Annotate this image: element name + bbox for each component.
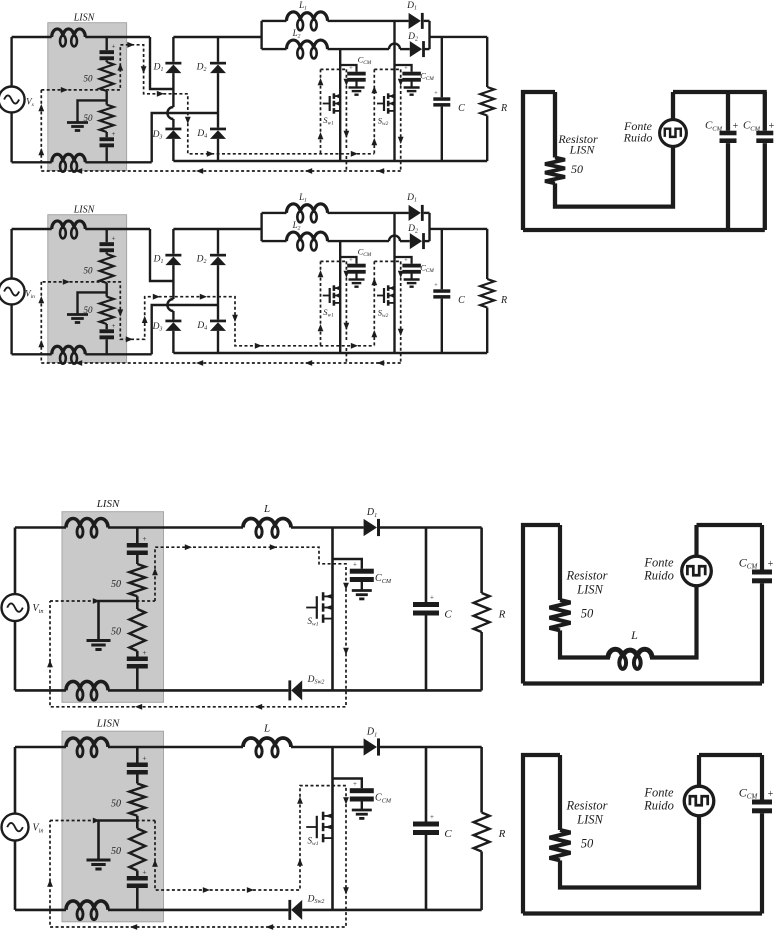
resistor LISN 50 lower: [129, 609, 145, 651]
svg-text:LISN: LISN: [73, 205, 96, 216]
inductor LISN top: [66, 519, 108, 528]
wire load branch lower: [486, 116, 488, 162]
ground CCM2: [404, 86, 420, 88]
svg-text:D2: D2: [196, 63, 207, 74]
svg-text:Vin: Vin: [25, 289, 35, 301]
dashed loop Sw1 top: [321, 260, 347, 262]
dashed arrow: [203, 887, 210, 893]
wire bottom line right: [302, 909, 481, 912]
svg-text:+: +: [430, 813, 434, 821]
wire ground tap: [99, 601, 138, 641]
wire riser to bridge node B: [152, 305, 218, 354]
wire switch branch: [331, 528, 334, 691]
capacitor C output: [433, 289, 450, 293]
wire load branch upper: [480, 747, 483, 813]
dashed arrow: [153, 294, 160, 300]
svg-text:Sw2: Sw2: [378, 308, 389, 320]
svg-text:CCM: CCM: [739, 556, 759, 571]
wire LISN ground tap: [78, 100, 107, 122]
dashed arrow: [63, 279, 70, 285]
wire bottom line to LISN: [12, 161, 52, 163]
svg-text:+: +: [434, 90, 438, 97]
dashed arrow: [398, 271, 404, 278]
svg-text:+: +: [142, 754, 146, 763]
ac source Vin: [0, 87, 25, 113]
wire noise source to top rail: [671, 92, 675, 120]
wire switch Sw2 branch: [393, 21, 395, 161]
capacitor CCM equivalent wire: [760, 755, 764, 800]
dashed arrow: [93, 598, 100, 604]
svg-text:Resistor: Resistor: [566, 799, 608, 813]
dashed arrow: [152, 860, 158, 867]
dashed arrow: [157, 91, 164, 97]
wire load branch upper: [486, 229, 488, 279]
dashed arrow: [47, 880, 53, 887]
wire L to D1: [291, 526, 364, 529]
dashed loop Sw1 right side: [345, 69, 347, 149]
resistor LISN 50 upper: [100, 62, 114, 91]
wire ac source left vertical: [10, 229, 12, 279]
svg-text:50: 50: [111, 579, 121, 590]
wire CCM2 to ground: [411, 81, 413, 87]
capacitor CCM equivalent 1: [720, 131, 737, 136]
wire resistor bottom horizontal: [560, 816, 699, 888]
wire L1 to D1h: [328, 20, 409, 22]
wire output cap branch lower: [441, 299, 443, 353]
wire top line: [108, 746, 243, 749]
ground CCM1: [349, 86, 365, 88]
wire CCM1 tap: [340, 65, 356, 72]
dashed arrow: [344, 271, 350, 278]
equivalent circuit outer left wire: [523, 755, 560, 914]
svg-text:D1: D1: [366, 507, 377, 519]
dashed arrow: [200, 294, 207, 300]
wire LISN mid: [136, 816, 139, 829]
resistor LISN 50 lower: [100, 297, 114, 324]
wire LISN branch top: [105, 229, 107, 242]
wire source vertical: [14, 747, 17, 814]
dashed loop Sw2 top: [374, 68, 400, 70]
wire output top: [430, 228, 488, 230]
svg-text:+: +: [142, 648, 146, 657]
svg-text:L: L: [263, 503, 270, 515]
svg-text:D2: D2: [196, 255, 207, 266]
wire output top: [430, 36, 488, 38]
wire to lower cap: [136, 651, 139, 657]
ground CCM: [352, 589, 372, 592]
ac source Vin: [2, 814, 29, 841]
ground CCM1: [349, 278, 365, 280]
dashed arrow: [196, 360, 203, 366]
svg-text:L1: L1: [298, 192, 307, 204]
capacitor CCM equivalent 1 wire: [726, 92, 730, 131]
wire switch Sw2 branch: [393, 213, 395, 353]
wire bridge right leg bottom: [217, 331, 219, 353]
capacitor CCM: [350, 569, 374, 574]
svg-text:C: C: [458, 295, 465, 306]
dashed arrow: [343, 648, 349, 655]
wire bridge right leg upper: [217, 229, 219, 254]
dashed arrow: [398, 329, 404, 336]
svg-text:C: C: [444, 828, 452, 840]
resistor LISN 50 equivalent: [545, 158, 565, 184]
wire bottom line to LISN: [15, 909, 66, 912]
dashed bottom return: [41, 362, 400, 364]
wire crossover hop on left leg: [167, 107, 173, 119]
wire between cap and resistor: [105, 252, 107, 254]
svg-text:+: +: [769, 121, 774, 132]
wire bottom line right: [302, 689, 481, 692]
ground LISN: [67, 121, 88, 124]
svg-text:D2: D2: [407, 224, 418, 235]
dashed arrow: [93, 818, 100, 824]
svg-text:Ruido: Ruido: [643, 569, 674, 583]
dashed arrow: [207, 151, 214, 157]
wire jog down to bridge node A: [150, 229, 173, 281]
diode D4: [210, 320, 226, 323]
dashed arrow: [126, 336, 133, 342]
wire switch Sw1 branch: [339, 49, 341, 161]
capacitor CCM1: [347, 264, 366, 268]
capacitor LISN upper: [100, 242, 115, 246]
wire diode join vertical: [428, 21, 430, 49]
capacitor CCM equivalent: [752, 570, 772, 575]
dashed arrow: [142, 316, 148, 323]
wire bridge right leg middle: [217, 265, 219, 320]
wire CCM2 tap: [395, 65, 412, 72]
svg-text:LISN: LISN: [73, 13, 96, 24]
dashed arrow: [371, 278, 377, 285]
dashed arrow: [247, 887, 254, 893]
svg-text:Sw2: Sw2: [378, 116, 389, 128]
inductor L1: [287, 12, 328, 21]
dashed arrow: [318, 324, 324, 331]
wire D1 to output: [380, 746, 482, 749]
wire CCM equivalent lower: [760, 813, 764, 913]
dashed arrow: [377, 168, 384, 174]
dashed arrow: [297, 797, 303, 804]
svg-text:Vs: Vs: [26, 97, 34, 109]
capacitor CCM equivalent 2 wire: [763, 92, 767, 131]
resistor LISN 50 upper: [129, 784, 145, 816]
dashed loop Sw2 right side: [400, 261, 402, 363]
diode D2: [210, 254, 226, 257]
capacitor LISN upper: [127, 763, 148, 768]
svg-text:Vin: Vin: [33, 823, 44, 835]
svg-text:+: +: [353, 780, 357, 788]
svg-text:Sw1: Sw1: [323, 115, 334, 127]
wire ac source left vertical: [10, 37, 12, 87]
wire bottom rail: [173, 160, 487, 162]
wire LISN branch top: [105, 37, 107, 50]
wire riser to bridge node B: [152, 113, 218, 162]
wire diode join vertical: [428, 213, 430, 241]
wire D1h to join: [424, 20, 430, 22]
svg-text:50: 50: [111, 627, 121, 638]
wire D1 to output: [380, 526, 482, 529]
dashed arrow: [75, 360, 82, 366]
transistor Sw1: [323, 295, 330, 297]
dashed arrow: [38, 148, 44, 155]
svg-text:R: R: [500, 295, 507, 306]
wire bridge right leg middle: [217, 73, 219, 128]
wire inductor junction vertical: [260, 21, 262, 49]
dashed arrow: [75, 168, 82, 174]
wire LISN ground tap: [78, 292, 107, 314]
dashed arrow: [371, 138, 377, 145]
svg-text:+: +: [349, 65, 353, 72]
inductor L2: [287, 40, 328, 49]
wire jog down to bridge node A: [150, 37, 173, 89]
wire bottom line: [108, 909, 288, 912]
wire CCM2 to ground: [411, 273, 413, 279]
wire cap to resistor: [136, 775, 139, 784]
capacitor LISN upper: [100, 50, 115, 54]
ground CCM2: [404, 278, 420, 280]
wire ground tap: [99, 821, 138, 861]
resistor LISN 50 upper: [129, 564, 145, 596]
dashed arrow: [351, 343, 358, 349]
svg-text:D2: D2: [407, 32, 418, 43]
wire to lower cap: [105, 324, 107, 329]
dashed arrow: [196, 168, 203, 174]
inductor L equivalent: [608, 649, 652, 658]
wire LISN branch top: [136, 747, 139, 763]
wire switch Sw1 branch: [339, 241, 341, 353]
svg-text:R: R: [498, 609, 506, 621]
wire to lower cap: [105, 132, 107, 137]
svg-text:50: 50: [111, 799, 121, 810]
wire load branch lower: [486, 308, 488, 354]
svg-text:CCM: CCM: [375, 573, 392, 585]
svg-text:+: +: [404, 257, 408, 264]
dashed arrow: [135, 704, 142, 710]
dashed noise path circuit 3: [50, 600, 155, 602]
dashed arrow: [343, 797, 349, 804]
dashed noise path via lower LISN: [43, 282, 375, 346]
diode DSw2: [291, 900, 302, 920]
wire noise source to top rail: [697, 755, 701, 787]
svg-text:+: +: [112, 235, 116, 243]
capacitor CCM equivalent: [752, 800, 772, 805]
transistor Sw1: [306, 826, 317, 828]
dashed arrow: [351, 151, 358, 157]
transistor Sw2: [377, 103, 384, 105]
resistor LISN equivalent wire upper: [553, 92, 557, 158]
noise source Fonte Ruido: [682, 556, 712, 586]
wire bridge left leg bottom: [172, 331, 174, 353]
svg-text:50: 50: [581, 607, 594, 621]
dashed noise path circuit 4: [50, 820, 155, 822]
LISN block shaded box (circuit 1): [48, 23, 127, 171]
LISN block shaded box (circuit 4): [62, 731, 164, 922]
capacitor CCM2: [402, 264, 421, 268]
dashed arrow: [185, 544, 192, 550]
wire L2 to hop: [328, 48, 390, 50]
dashed loop Sw2 left side: [373, 261, 375, 345]
resistor LISN 50 lower: [100, 105, 114, 132]
wire D2h to join: [424, 240, 430, 242]
dashed arrow: [38, 340, 44, 347]
svg-text:+: +: [112, 130, 116, 138]
capacitor LISN lower: [100, 329, 115, 333]
wire bottom line LISN to riser: [85, 161, 151, 163]
wire bridge top rail: [173, 36, 261, 38]
svg-text:50: 50: [571, 162, 583, 176]
capacitor C output: [433, 97, 450, 101]
transistor Sw2: [377, 295, 384, 297]
wire load branch upper: [480, 528, 483, 594]
capacitor C output: [413, 822, 439, 827]
resistor LISN equivalent wire upper: [558, 525, 562, 600]
capacitor LISN lower: [127, 876, 148, 881]
svg-text:DSw2: DSw2: [307, 675, 325, 686]
wire output cap branch upper: [425, 747, 428, 822]
diode D1: [364, 519, 377, 536]
svg-text:+: +: [733, 121, 739, 132]
wire bottom rail: [173, 352, 487, 354]
dashed arrow: [371, 330, 377, 337]
wire bottom line LISN to riser: [85, 353, 151, 355]
svg-text:50: 50: [84, 266, 94, 276]
svg-text:+: +: [404, 65, 408, 72]
inductor L: [243, 519, 291, 528]
dashed loop Sw1 top: [321, 68, 347, 70]
wire CCM2 tap: [395, 257, 412, 264]
wire crossover hop on L2 line: [389, 44, 400, 50]
svg-text:C: C: [444, 609, 452, 621]
wire output cap branch lower: [441, 107, 443, 161]
dashed loop Sw2 left side: [373, 69, 375, 153]
ground CCM: [352, 809, 372, 812]
svg-text:R: R: [500, 103, 507, 114]
capacitor C output: [413, 602, 439, 607]
wire top line to LISN: [15, 526, 66, 529]
diode D2 output: [410, 233, 422, 249]
resistor LISN equivalent wire upper: [558, 755, 562, 830]
resistor R load: [480, 87, 494, 116]
svg-text:CCM: CCM: [420, 71, 434, 83]
wire source vertical: [14, 528, 17, 595]
svg-text:D1: D1: [153, 255, 164, 266]
svg-text:50: 50: [84, 74, 94, 84]
svg-text:D1: D1: [366, 727, 377, 739]
transistor Sw1: [323, 103, 330, 105]
dashed arrow: [47, 660, 53, 667]
wire CCM1 to ground: [355, 273, 357, 279]
wire CCM to ground: [361, 582, 363, 591]
diode D1 output: [409, 13, 421, 29]
svg-text:LISN: LISN: [576, 583, 603, 597]
wire bridge left leg middle: [172, 73, 174, 107]
svg-text:R: R: [498, 828, 506, 840]
dashed loop Sw1 left side: [320, 69, 322, 153]
resistor R load: [474, 593, 490, 632]
wire bottom rail: [523, 911, 762, 915]
svg-text:+: +: [142, 868, 146, 877]
wire bridge left leg middle: [172, 265, 174, 299]
dashed arrow: [141, 66, 147, 73]
wire L to noise source riser: [650, 586, 697, 658]
wire LISN branch top: [136, 528, 139, 544]
dashed loop Sw2 right side: [400, 69, 402, 171]
svg-text:D4: D4: [196, 321, 207, 332]
diode D2: [210, 62, 226, 65]
wire hop to D2h: [400, 48, 410, 50]
svg-text:+: +: [112, 43, 116, 51]
resistor LISN 50 equivalent: [550, 600, 571, 630]
wire LISN branch bottom: [105, 339, 107, 354]
diode D1: [364, 738, 377, 755]
inductor LISN bottom: [52, 154, 86, 162]
svg-text:Vin: Vin: [33, 603, 44, 615]
diode DSw2: [291, 680, 302, 700]
resistor LISN 50 equivalent: [550, 830, 571, 860]
wire L2 to hop: [328, 240, 390, 242]
LISN block shaded box (circuit 2): [48, 215, 127, 363]
dashed arrow: [377, 360, 384, 366]
wire bottom line: [108, 689, 288, 692]
dashed loop Sw2 top: [374, 260, 400, 262]
dashed arrow: [297, 859, 303, 866]
svg-text:CCM: CCM: [743, 120, 761, 133]
wire bridge left leg upper: [172, 37, 174, 62]
svg-text:L: L: [630, 628, 638, 642]
inductor L2: [287, 232, 328, 241]
dashed arrow: [398, 137, 404, 144]
wire bridge left leg lower: [172, 119, 174, 128]
dashed arrow: [343, 887, 349, 894]
wire switch branch: [331, 747, 334, 910]
dashed bottom return: [41, 170, 400, 172]
transistor Sw1: [306, 607, 317, 609]
svg-text:D1: D1: [406, 1, 417, 12]
wire to L1: [262, 20, 287, 22]
wire to L2: [262, 240, 287, 242]
diode D1: [165, 254, 181, 257]
dashed arrow: [270, 544, 277, 550]
capacitor LISN lower: [100, 137, 115, 141]
svg-text:Fonte: Fonte: [643, 786, 674, 800]
inductor L1: [287, 204, 328, 213]
svg-text:Fonte: Fonte: [643, 556, 674, 570]
wire to L2: [262, 48, 287, 50]
wire bottom rail: [523, 228, 765, 232]
dashed arrow: [344, 79, 350, 86]
inductor LISN top: [66, 738, 108, 747]
svg-text:+: +: [349, 257, 353, 264]
wire CCM to ground: [361, 802, 363, 811]
dashed arrow: [130, 924, 137, 930]
svg-text:D3: D3: [152, 130, 163, 141]
dashed loop Sw1 left side: [320, 261, 322, 345]
wire top line to LISN: [12, 228, 52, 230]
wire hop to D2h: [400, 240, 410, 242]
dashed arrow: [152, 568, 158, 575]
svg-text:D3: D3: [152, 322, 163, 333]
diode D3: [165, 128, 181, 131]
wire bottom rail: [523, 681, 762, 685]
wire bridge left leg bottom: [172, 139, 174, 161]
resistor R load: [474, 813, 490, 852]
svg-text:+: +: [768, 559, 774, 570]
svg-text:CCM: CCM: [739, 786, 759, 801]
svg-text:50: 50: [581, 837, 594, 851]
wire top rail: [673, 90, 767, 94]
dashed source left vertical: [40, 282, 42, 363]
wire output cap branch upper: [441, 37, 443, 97]
svg-text:+: +: [353, 561, 357, 569]
